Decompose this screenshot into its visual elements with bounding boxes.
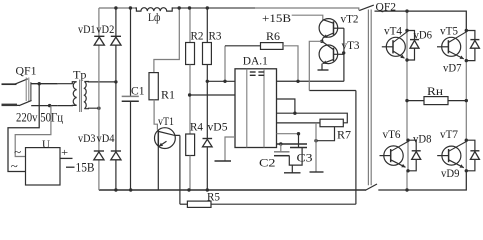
- svg-text:+15В: +15В: [262, 11, 291, 25]
- diode vD2: [111, 36, 121, 45]
- transistor vT1 emitter: [158, 141, 166, 190]
- svg-text:vD4: vD4: [97, 133, 115, 145]
- thyristor vT4 bar: [392, 40, 394, 53]
- wire right top bus: [375, 11, 467, 30]
- label C2: [259, 158, 276, 170]
- svg-text:vD9: vD9: [441, 168, 460, 180]
- diode vD4: [111, 151, 121, 160]
- label C3: [297, 153, 313, 165]
- label vD2: [96, 24, 114, 36]
- node secondary bottom to vD1 line: [97, 107, 100, 110]
- breaker QF1 bottom pole wire right: [31, 105, 58, 107]
- label R1: [161, 87, 175, 101]
- svg-text:vT4: vT4: [384, 25, 402, 37]
- label R2: [191, 29, 204, 43]
- wire C3 top lead: [298, 134, 300, 148]
- transistor vT3 circle: [319, 45, 338, 64]
- svg-text:DA.1: DA.1: [243, 55, 268, 67]
- wire R2 top lead: [189, 8, 191, 43]
- transistor vT1 base bar: [157, 130, 159, 146]
- wire R6 left lead: [225, 45, 261, 47]
- svg-text:vT7: vT7: [440, 129, 458, 141]
- wire R7 left ground drop: [315, 123, 317, 172]
- label Tp: [73, 69, 87, 81]
- resistor R6: [261, 43, 284, 50]
- wire U minus output stub: [66, 166, 75, 168]
- node bottom bus vD4: [114, 188, 117, 191]
- node bottom bus R4: [187, 188, 190, 191]
- wire plus15V to vT2: [292, 15, 323, 20]
- label vT5: [440, 25, 458, 37]
- wire vT5 vD7 branch: [465, 29, 475, 63]
- breaker QF2 top tick: [357, 8, 360, 10]
- wire right bottom bus: [378, 171, 466, 190]
- label vD9: [441, 168, 460, 180]
- wire R1 to vT1 base: [154, 100, 157, 130]
- diode vD7: [470, 40, 479, 49]
- wire C2 C3 bottoms join: [289, 148, 302, 166]
- wire C1 line: [130, 8, 132, 190]
- thyristor vT5 emitter: [448, 51, 463, 59]
- label C1: [131, 85, 145, 97]
- wire DA1 right pin6: [277, 133, 299, 135]
- wire U input 1 path: [15, 106, 51, 157]
- wire right leg: [465, 61, 467, 141]
- node pin6 C3: [297, 132, 300, 135]
- transformer Tp primary winding: [58, 82, 77, 106]
- breaker QF2 bottom blade: [365, 184, 377, 190]
- thyristor vT4 circle: [386, 37, 405, 56]
- node pin3 joins pin4 wire: [293, 112, 296, 115]
- transistor vT1 collector: [159, 132, 180, 136]
- capacitor C3 bottom plate: [290, 147, 307, 149]
- ground G2 bar: [310, 171, 324, 173]
- breaker QF1 link: [26, 78, 31, 102]
- label vT1: [158, 116, 174, 128]
- svg-text:Rн: Rн: [427, 84, 444, 98]
- label R7: [337, 128, 351, 142]
- node vT2 vT3 emitters: [320, 40, 323, 43]
- transistor vT3 base bar: [333, 48, 335, 62]
- transformer Tp secondary winding: [84, 82, 116, 109]
- diode vD5: [203, 139, 213, 147]
- svg-text:C1: C1: [131, 85, 145, 97]
- node vT3 base: [342, 51, 345, 54]
- label DA.1: [243, 55, 268, 67]
- label QF1: [16, 66, 37, 78]
- node pin7 C2 tap: [279, 142, 282, 145]
- resistor R4: [186, 134, 195, 156]
- svg-text:R2: R2: [191, 29, 204, 43]
- svg-text:QF1: QF1: [16, 66, 37, 78]
- transistor vT2 emitter: [322, 33, 334, 41]
- label ac tilde 1: [14, 145, 22, 159]
- svg-text:vT5: vT5: [440, 25, 458, 37]
- transistor vT2 circle: [319, 19, 338, 38]
- resistor R2: [186, 43, 195, 65]
- label vD5: [208, 120, 228, 134]
- label vD7: [443, 63, 462, 75]
- label Rn: [427, 84, 444, 98]
- svg-text:vD8: vD8: [413, 134, 432, 146]
- wire vT6 vD8 branch: [406, 139, 416, 173]
- wire DA1 right pin1 bus: [277, 80, 344, 82]
- opamp DA.1 equals symbol: [250, 72, 264, 75]
- wire R7 bottom tap: [316, 127, 335, 141]
- thyristor vT6 emitter: [391, 160, 406, 168]
- wire R5 right to feedback: [211, 91, 356, 205]
- wire mid load wire: [405, 99, 468, 102]
- label ac tilde 2: [11, 159, 19, 173]
- svg-text:~: ~: [11, 159, 19, 173]
- svg-text:U: U: [42, 139, 51, 151]
- label U: [42, 139, 51, 151]
- svg-text:15В: 15В: [76, 159, 95, 174]
- diode vD3: [94, 151, 104, 160]
- svg-text:~: ~: [14, 145, 22, 159]
- resistor Rn: [424, 97, 448, 105]
- wire vD5 bottom lead: [206, 147, 208, 190]
- ground bar vT3 emitter: [318, 69, 329, 71]
- label vD3: [78, 133, 96, 145]
- wire DA1 right pin5 to R7 left: [277, 122, 321, 124]
- wire C2 top lead: [280, 144, 282, 152]
- wire top bus to R1: [154, 8, 179, 73]
- node right top bus left leg: [405, 9, 408, 12]
- wire vT3 base lead: [334, 53, 344, 55]
- breaker QF1 bottom pole wire left: [2, 104, 20, 106]
- breaker QF1 bottom blade: [19, 100, 32, 105]
- breaker QF1 top pole wire right: [31, 83, 58, 85]
- breaker QF2 top blade: [359, 5, 374, 11]
- wire U input 2 path: [8, 84, 39, 172]
- label vD4: [97, 133, 115, 145]
- wire R4 bottom lead: [189, 156, 191, 191]
- node top bus R2: [188, 6, 191, 9]
- label R5: [207, 191, 220, 203]
- ground G1 bar: [284, 172, 301, 174]
- opamp DA.1 inner lines: [247, 69, 264, 148]
- wire DA1 left pin1: [207, 80, 235, 82]
- svg-text:vT1: vT1: [158, 116, 174, 128]
- thyristor vT5 base stub: [437, 46, 448, 48]
- svg-text:C3: C3: [297, 153, 313, 165]
- transformer Tp core: [80, 80, 82, 113]
- label vT2: [341, 13, 359, 25]
- svg-text:vD5: vD5: [208, 120, 228, 134]
- svg-text:R5: R5: [207, 191, 220, 203]
- wire vT2 base lead: [334, 27, 344, 29]
- label plus15V: [262, 11, 291, 25]
- node R6 to pin wire: [296, 80, 299, 83]
- svg-text:R6: R6: [266, 31, 280, 43]
- node top bus vD2: [114, 6, 117, 9]
- thyristor vT7 base stub: [437, 155, 448, 157]
- thyristor vT6 collector: [391, 142, 408, 152]
- thyristor vT7 emitter: [449, 160, 464, 168]
- svg-text:R3: R3: [209, 29, 222, 43]
- wire vD2 vD4 line: [115, 8, 117, 190]
- label vD8: [413, 134, 432, 146]
- thyristor vT5 circle: [442, 37, 461, 56]
- wire DA1 left pin2: [190, 94, 235, 96]
- transistor vT2 collector: [323, 20, 334, 24]
- thyristor vT6 base stub: [380, 155, 391, 157]
- node R3 vD5 junction: [206, 80, 209, 83]
- wire DA1 right pin4 to R7 right: [277, 113, 348, 123]
- wire vT7 vD9 branch: [465, 139, 475, 173]
- label vD6: [414, 29, 433, 41]
- node secondary top to vD2 line: [114, 80, 117, 83]
- svg-text:vT2: vT2: [341, 13, 359, 25]
- transistor vT3 collector: [322, 41, 334, 49]
- node R7 tap ground: [314, 139, 317, 142]
- resistor R3: [203, 43, 212, 65]
- thyristor vT4 collector: [393, 32, 407, 43]
- thyristor vT6 circle: [384, 146, 403, 165]
- node bottom bus left leg: [405, 188, 408, 191]
- thyristor vT5 bar: [447, 40, 449, 53]
- thyristor vT4 emitter: [393, 51, 405, 58]
- wire DA1 right pin3: [277, 99, 295, 113]
- node junction QF1 bottom to U tap: [48, 104, 51, 107]
- wire R6 right drop: [283, 46, 298, 82]
- wire R2 bottom lead: [189, 65, 191, 135]
- breaker QF2 link: [368, 10, 371, 186]
- label minus 15V: [76, 159, 95, 174]
- transistor vT1 circle: [155, 128, 176, 149]
- breaker QF1 top blade: [14, 79, 28, 85]
- opamp DA.1 box: [235, 69, 277, 148]
- ground G3 bar: [215, 160, 232, 162]
- label R4: [190, 120, 203, 134]
- svg-text:vT6: vT6: [383, 129, 401, 141]
- diode vD9: [470, 151, 479, 160]
- wire ground stem G1: [291, 165, 293, 173]
- label vT3: [342, 40, 360, 52]
- capacitor C1: [122, 96, 139, 101]
- label plus: [61, 147, 68, 159]
- svg-text:R4: R4: [190, 120, 203, 134]
- thyristor vT5 collector: [448, 32, 466, 43]
- label vT4: [384, 25, 402, 37]
- label Lf: [148, 12, 161, 24]
- wire R3 top lead: [206, 8, 208, 43]
- node junction QF1 top to U tap: [38, 82, 41, 85]
- wire R3 to vD5 line: [206, 65, 208, 139]
- wire top bus (+ rail): [99, 7, 358, 9]
- resistor R7: [320, 119, 343, 127]
- wire DA1 left pin3 ground: [225, 137, 235, 161]
- svg-text:R1: R1: [161, 87, 175, 101]
- wire U plus output stub: [60, 157, 73, 159]
- wire left leg: [406, 11, 408, 190]
- thyristor vT6 bar: [390, 149, 392, 162]
- wire R6 left drop to pin1: [224, 46, 226, 82]
- label 220v 50Hz: [16, 110, 63, 124]
- svg-text:vD3: vD3: [78, 133, 96, 145]
- transistor vT3 emitter: [322, 59, 334, 70]
- node top bus R3: [206, 6, 209, 9]
- wire DA1 right pin7 C3 top plate: [277, 143, 308, 145]
- thyristor vT7 bar: [448, 149, 450, 162]
- breaker QF1 top pole wire left: [2, 83, 17, 85]
- node DA1 pin1 drop: [223, 80, 226, 83]
- node R2 R4 to DA1 pin: [188, 93, 191, 96]
- wire vT1 collector to R5: [180, 135, 188, 204]
- wire vT2 vT3 output node down: [309, 41, 322, 90]
- diode vD1: [94, 36, 104, 45]
- label vD1: [78, 24, 96, 36]
- wire bottom bus (- rail): [99, 189, 366, 191]
- transistor vT2 base bar: [333, 21, 335, 35]
- resistor R5: [187, 201, 211, 207]
- node bottom bus C1: [129, 188, 132, 191]
- wire vT4 vD6 branch: [405, 29, 414, 62]
- resistor R1: [149, 73, 158, 100]
- mark dark plug wedge: [2, 104, 18, 107]
- label R3: [209, 29, 222, 43]
- svg-text:C2: C2: [259, 158, 276, 170]
- node top bus R1 feed: [178, 6, 181, 9]
- svg-text:R7: R7: [337, 128, 351, 142]
- thyristor vT7 circle: [442, 146, 461, 165]
- inductor Lf: [135, 8, 173, 11]
- wire vD1 vD3 line: [98, 8, 100, 190]
- svg-text:vD2: vD2: [96, 24, 114, 36]
- svg-text:Lф: Lф: [148, 12, 161, 24]
- thyristor vT4 base stub: [382, 46, 393, 48]
- label R6: [266, 31, 280, 43]
- node top bus C1: [129, 6, 132, 9]
- node bottom bus vD5: [206, 188, 209, 191]
- svg-text:+: +: [61, 147, 68, 159]
- wire bases to DA1 pin wire: [343, 28, 345, 81]
- label vT7: [440, 129, 458, 141]
- diode vD8: [412, 151, 421, 160]
- label QF2: [376, 2, 397, 14]
- svg-text:vD7: vD7: [443, 63, 462, 75]
- power supply U box: [26, 148, 61, 185]
- thyristor vT7 collector: [449, 142, 467, 152]
- svg-text:vD1: vD1: [78, 24, 96, 36]
- label vT6: [383, 129, 401, 141]
- diode vD6: [410, 40, 419, 49]
- capacitor C2: [274, 152, 290, 156]
